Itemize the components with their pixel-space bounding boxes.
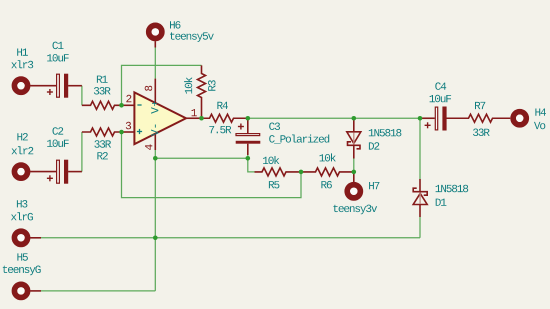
C3 bottom pin [247,144,249,155]
junction ground/pin4/H3 [153,236,158,241]
label xlrG [11,212,33,220]
wire C3-bottom node horizontal to pin4 vertical [155,157,248,159]
H7 pin lead [353,172,355,182]
diode D1 schottky cathode bar [413,188,427,195]
op-amp pin 3 stub [122,131,135,133]
diode D1 through-lead inside triangle [419,193,421,204]
junction pin3/R2 [119,130,124,135]
H5 pin lead [30,290,41,292]
capacitor C3 positive plate (hollow) [236,134,260,136]
diode D2 bottom pin [353,145,355,158]
wire output net: C3 top junction to D1 branch [248,117,420,119]
label 10uF (C1) [47,54,68,62]
connector H5 pad [14,284,27,297]
resistor R4 [202,114,248,122]
label 33R (R1) [94,87,111,95]
wire pin3 route: down, across, up to R5/R6 node [122,132,302,198]
label H5 [17,253,28,260]
label 33R (R2) [94,140,111,148]
label C1 [53,42,64,50]
op-amp pin 1 stub [186,117,202,119]
diode D2 schottky cathode bar [348,142,361,149]
wire D1 top to output net [419,118,421,179]
H6 pin lead [154,41,156,47]
wire feedback net: pin2 junction up and over to R3 top [122,65,202,105]
label xlr2 [12,146,34,154]
diode D1 top pin [419,179,421,192]
wire input1: C1 to R1 elbow [81,86,83,106]
H1 pin lead [30,85,56,87]
wire C3 bottom segment [248,155,255,172]
pin name V+ (rotated): + [152,101,157,106]
label teensy3v [333,205,377,215]
resistor R2 [82,128,122,136]
label H1 [17,49,28,56]
diode D1 bottom pin [419,205,421,218]
diode D1 body (triangle pointing up) [413,193,427,204]
label 1N5818 (D1) [436,185,469,193]
capacitor C4 left pin [420,117,435,119]
capacitor C1 positive plate (hollow) [57,74,60,97]
label teensy5v [170,32,214,42]
label R5 [269,181,280,188]
capacitor C4 positive plate (hollow) [435,107,437,130]
junction C3 bottom [246,156,251,161]
capacitor C2 positive plate (hollow) [57,160,60,183]
label R1 [97,76,108,83]
junction D2 top [352,116,357,121]
C4 plus mark [425,122,431,128]
op-amp inverting input mark [137,104,141,106]
label xlr3 [11,60,33,68]
label D1 [436,199,447,206]
label C4 [435,82,446,90]
label 33R (R7) [473,129,490,137]
op-amp non-inverting input mark [137,129,142,134]
junction D1 top branch [418,116,423,121]
junction R4/C3 top [246,116,251,121]
C1 right pin [68,85,82,87]
label 10k (R3, rotated) [184,77,192,93]
junction R6/D2/H7 [352,170,357,175]
label C_Polarized [269,135,329,144]
C3 plus mark [238,124,244,130]
label 7.5R [209,126,231,133]
capacitor C3 top pin [247,118,249,133]
label Vo [534,122,545,129]
label teensyG [3,266,41,276]
C1 plus mark [47,89,53,95]
wire D1 bottom to ground [419,217,421,238]
label C2 [53,127,64,135]
connector H4 pad [513,112,526,125]
junction pin4 line [153,156,158,161]
label R6 [321,181,332,189]
capacitor C3 negative plate (filled) [236,141,261,144]
label H4 [535,109,546,116]
C2 right pin [68,171,82,173]
resistor R5 [255,168,302,176]
pin number 2 [126,95,131,102]
label 10uF (C2) [47,140,68,148]
pin name V+ (rotated): V [151,107,158,114]
label R7 [475,102,485,109]
connector H6 pad [149,25,162,38]
label H3 [17,200,28,208]
pin name V- (rotated): V [151,130,158,137]
pin number 4 (rotated) [145,144,152,150]
label C3 [269,123,280,131]
capacitor C4 negative plate (filled) [442,107,446,131]
resistor R1 [82,101,122,109]
capacitor C1 negative plate (filled) [64,74,68,98]
H3 pin lead [30,237,41,239]
resistor R3 (vertical) [198,65,206,118]
label R4 [217,102,228,109]
connector H1 pad [14,79,27,92]
resistor R6 [301,168,354,176]
label H6 [170,21,181,29]
wire input2: C2 up to R2 [81,132,83,172]
pin name V- (rotated): - [154,125,157,128]
label D2 [369,142,379,149]
wire ground: H3 to D1 bottom [41,237,420,239]
diode D2 body (triangle pointing down) [347,132,361,144]
junction pin2/R1/feedback [119,103,124,108]
C4 right pin [446,117,468,119]
capacitor C2 negative plate (filled) [64,160,68,184]
op-amp U1 body [134,92,186,144]
wire 5V: H6 down to op-amp pin 8 [154,48,156,79]
connector H7 pad [347,185,360,198]
C2 plus mark [47,175,53,181]
op-amp pin 4 stub [154,134,156,150]
diode D2 through-lead inside triangle [353,133,355,145]
label H2 [17,133,27,140]
H2 pin lead [30,171,56,173]
connector H2 pad [14,165,27,178]
label 10uF (C4) [430,95,452,103]
junction R3 bottom/output [199,116,204,121]
pin number 1 [192,109,197,116]
connector H3 pad [14,231,27,244]
wire H5 teensyG horizontal [41,290,155,292]
label 10k (R6) [320,153,336,161]
wire pin4 vertical down to H5 row [154,150,156,291]
wire D2 bottom to R6/H7 node [353,159,355,172]
label R3 (rotated) [208,80,216,91]
label H7 [369,182,379,189]
junction R5/R6 [299,170,304,175]
pin number 8 (rotated) [145,86,153,91]
resistor R7 [447,114,511,122]
op-amp pin 8 stub [154,79,156,103]
op-amp pin 2 stub [122,104,135,106]
diode D2 top pin [353,118,355,132]
label 1N5818 (D2) [369,129,402,137]
label 10k (R5) [263,156,279,164]
label R2 [97,152,107,159]
pin number 3 [126,122,131,130]
